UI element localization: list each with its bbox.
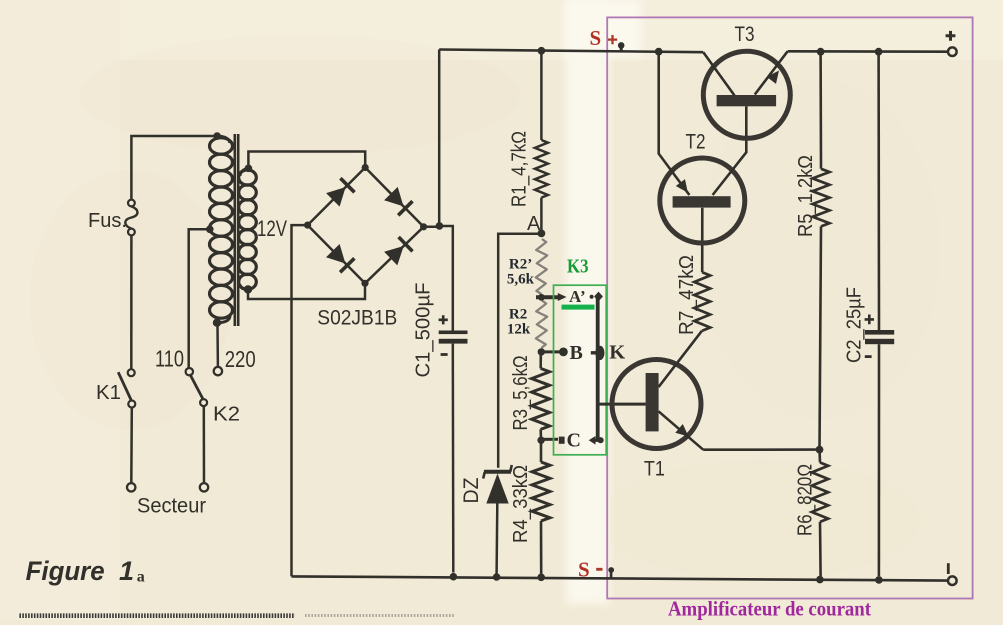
transistor T2: [660, 158, 745, 243]
wire K1 to Secteur terminal: [130, 408, 133, 484]
svg-text:5,6k: 5,6k: [507, 272, 535, 288]
resistor R2 12k (pencil): [536, 301, 547, 349]
bridge junction dots: [362, 164, 369, 171]
diode bridge top-right: [384, 187, 403, 207]
wire R1 to node A: [540, 198, 543, 234]
light scanner band: [566, 0, 609, 604]
fuse Fus.: [128, 200, 135, 207]
node C: [537, 437, 544, 444]
svg-text:C1_500µF: C1_500µF: [413, 283, 435, 378]
diode bridge bottom-right: [384, 246, 404, 265]
svg-text:12V: 12V: [257, 216, 287, 241]
svg-text:R2’: R2’: [509, 256, 532, 272]
bottom - rail: [292, 576, 949, 580]
svg-text:T1: T1: [644, 457, 665, 480]
zener diode DZ: [484, 470, 511, 474]
svg-text:R6_820Ω: R6_820Ω: [795, 464, 817, 536]
T2 collector to T3 base: [713, 106, 747, 195]
svg-text:K1: K1: [96, 382, 121, 404]
svg-text:B: B: [570, 342, 583, 364]
svg-text:Fus.: Fus.: [88, 210, 127, 232]
svg-text:Secteur: Secteur: [137, 495, 206, 518]
junction dots bottom rail: [450, 573, 458, 581]
resistor R2' 5,6k (pencil): [536, 239, 547, 294]
- output terminal: [948, 576, 957, 585]
transformer primary winding: [213, 132, 221, 140]
tick on rail near S-: [610, 570, 613, 580]
diode bridge top-left: [326, 187, 346, 207]
svg-text:R2: R2: [509, 307, 527, 323]
green box K3: [554, 285, 607, 455]
wire T1 emitter to R6 junction: [703, 448, 819, 451]
resistor R4 33k: [540, 440, 543, 462]
resistor R6 820: [818, 450, 821, 463]
svg-text:R5_1,2kΩ: R5_1,2kΩ: [795, 155, 817, 237]
svg-text:DZ: DZ: [460, 477, 483, 503]
wire primary to 220: [216, 326, 219, 367]
diode bridge bottom-left: [326, 244, 345, 264]
svg-text:C: C: [567, 429, 581, 451]
svg-text:R1_4,7kΩ: R1_4,7kΩ: [509, 131, 531, 207]
capacitor C1 500uF: [439, 331, 468, 335]
+ output terminal: [948, 47, 957, 56]
wire 110 tap: [189, 229, 210, 367]
svg-text:K2: K2: [213, 404, 240, 426]
svg-text:1: 1: [119, 556, 134, 586]
svg-text:R4_33kΩ: R4_33kΩ: [510, 465, 532, 543]
resistor R1 4,7k: [535, 140, 548, 198]
green underline under A': [562, 305, 595, 310]
wire K3 bar to T1 base: [598, 403, 646, 406]
svg-text:R3_5,6kΩ: R3_5,6kΩ: [510, 355, 532, 430]
switch K2: [186, 368, 193, 375]
wire bridge right vertex to C1 top / up to rail: [424, 50, 453, 331]
svg-text:T2: T2: [686, 130, 706, 153]
svg-text:S: S: [590, 26, 602, 50]
wire rail to R1: [540, 51, 543, 140]
switch K1: [128, 369, 135, 376]
svg-text:S02JB1B: S02JB1B: [317, 307, 397, 330]
svg-text:a: a: [137, 568, 145, 585]
svg-text:110: 110: [155, 346, 184, 372]
wire secondary top to bridge top vertex: [248, 152, 365, 169]
svg-text:K3: K3: [567, 255, 589, 277]
svg-text:A’: A’: [569, 287, 586, 306]
wire rail to T2 (arrow lead): [659, 52, 690, 196]
node A: [538, 230, 546, 238]
node A' tap: [536, 295, 560, 299]
svg-text:R7_47kΩ: R7_47kΩ: [676, 255, 698, 335]
resistor R3 5,6k: [539, 352, 542, 368]
bridge rectifier S02JB1B diamond: [308, 168, 366, 226]
wire fuse to K1: [130, 235, 133, 369]
transistor T1: [612, 360, 701, 449]
transistor T3: [703, 51, 790, 138]
wire K2 to Secteur terminal: [203, 406, 206, 483]
svg-text:T3: T3: [735, 23, 755, 46]
wiper K: [595, 346, 604, 360]
transformer core: [234, 134, 237, 326]
tick on rail near S+: [620, 45, 623, 52]
node B: [538, 348, 545, 355]
svg-text:C2_25µF: C2_25µF: [844, 287, 866, 363]
svg-text:Figure: Figure: [26, 556, 105, 586]
resistor R7 47k: [701, 208, 704, 272]
resistor R5 1,2k: [819, 52, 822, 169]
top + rail (left segment): [439, 50, 703, 53]
svg-text:S: S: [578, 557, 590, 581]
purple frame box: [607, 17, 972, 598]
wire secondary bottom to bridge bottom vertex: [248, 283, 365, 299]
transformer secondary winding: [245, 165, 253, 173]
wire node A to DZ branch: [498, 234, 541, 468]
top + rail (right segment): [788, 50, 949, 53]
svg-text:A: A: [527, 213, 541, 235]
svg-text:K: K: [609, 341, 625, 363]
wire: top-left loop from fuse to primary: [131, 136, 217, 199]
capacitor C2 25uF: [877, 52, 880, 330]
svg-text:220: 220: [225, 346, 256, 372]
svg-text:12k: 12k: [507, 322, 531, 338]
wire bridge left vertex down to bottom rail: [292, 225, 308, 576]
selector bar: [596, 297, 600, 440]
svg-text:Amplificateur de courant: Amplificateur de courant: [668, 597, 871, 621]
page edge strips: [19, 613, 295, 618]
